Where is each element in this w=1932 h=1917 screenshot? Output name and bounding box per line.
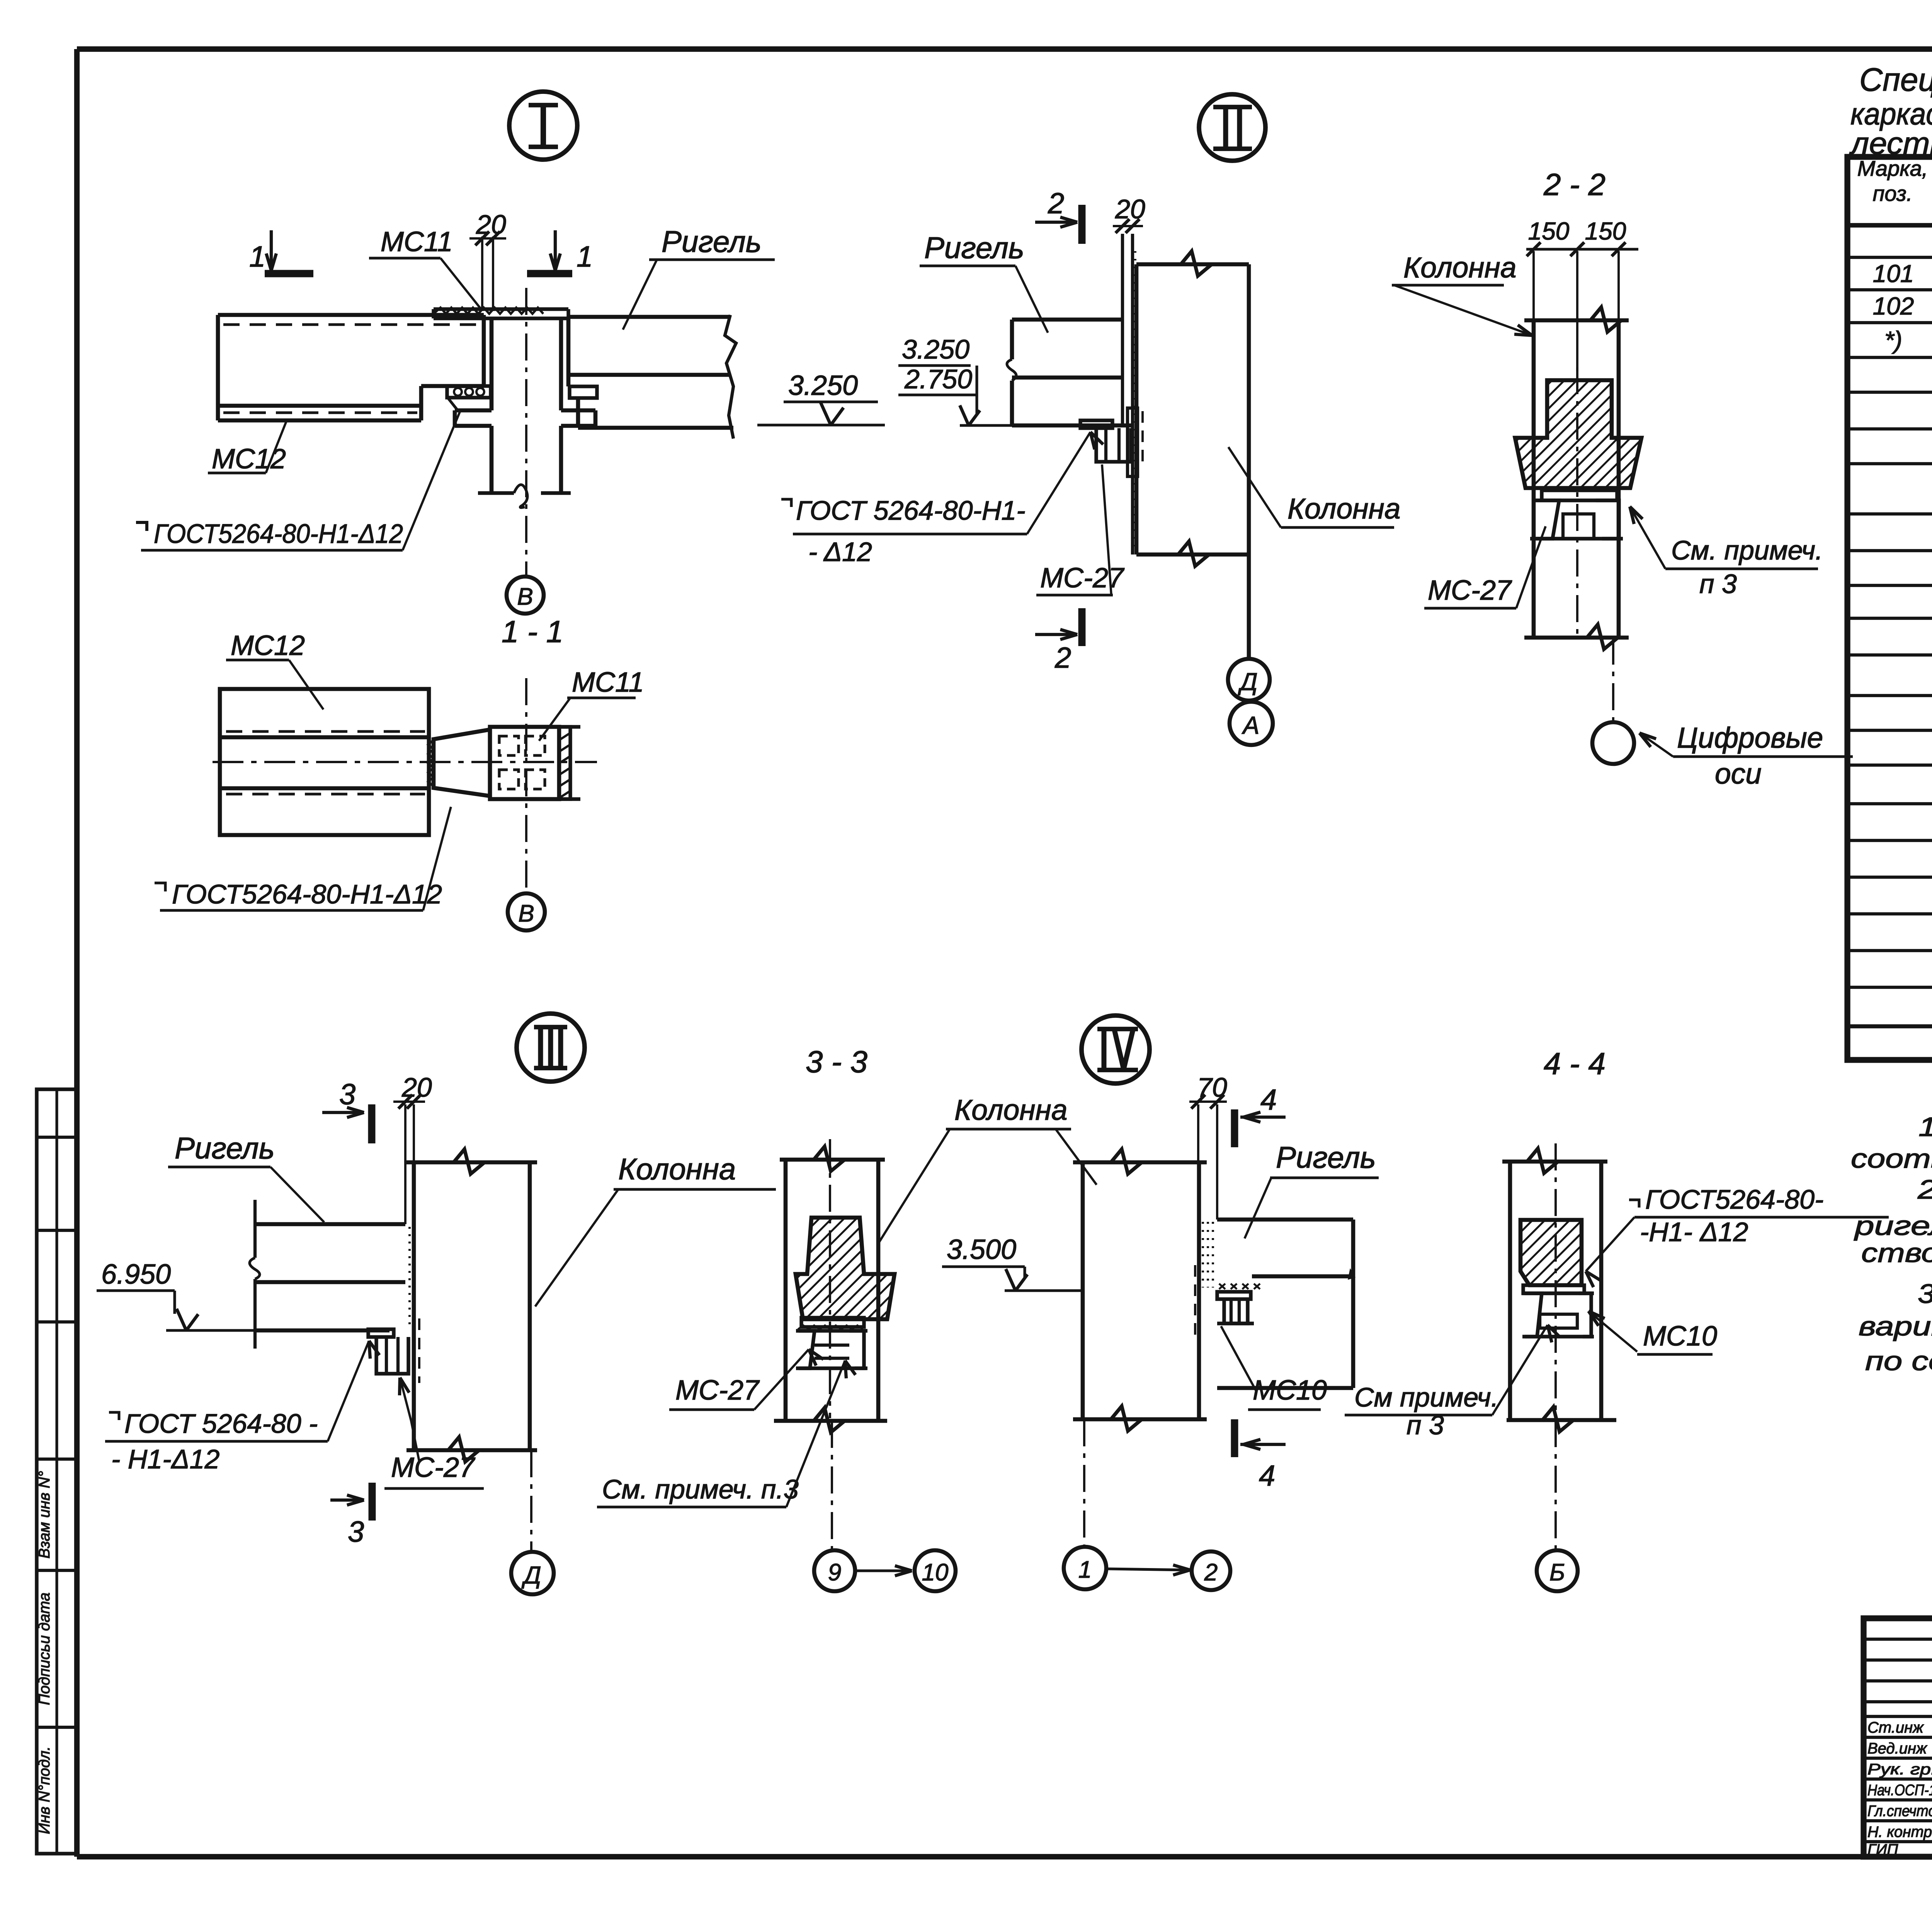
- connector plate box: [490, 727, 559, 799]
- section 2-2 axis circle: [1592, 722, 1634, 764]
- plate MC11 on joint: [434, 307, 568, 311]
- svg-text:МС12: МС12: [231, 630, 305, 661]
- svg-text:2: 2: [1204, 1559, 1218, 1586]
- svg-text:А: А: [1242, 711, 1260, 739]
- svg-text:3.500: 3.500: [947, 1234, 1016, 1265]
- svg-text:ГОСТ 5264-80 -: ГОСТ 5264-80 -: [124, 1408, 318, 1439]
- svg-text:3 - 3: 3 - 3: [806, 1044, 867, 1079]
- section 2-2 connector: [1542, 490, 1617, 500]
- svg-text:Колонна: Колонна: [618, 1152, 736, 1186]
- label GOST node II: [781, 499, 791, 507]
- svg-text:4: 4: [1260, 1084, 1277, 1116]
- svg-text:МС10: МС10: [1643, 1321, 1717, 1352]
- svg-text:1: 1: [1078, 1556, 1092, 1583]
- svg-text:9: 9: [828, 1559, 841, 1586]
- node II bubble: [1199, 94, 1265, 161]
- svg-text:4 - 4: 4 - 4: [1544, 1046, 1605, 1081]
- svg-text:п 3: п 3: [1406, 1410, 1444, 1440]
- svg-text:соответствии с указаниями: соответствии с указаниями ГОСТ 5264-80.: [1851, 1143, 1932, 1174]
- section 2-2 axis dashdot: [1576, 367, 1578, 634]
- weld seam on top plate: [434, 308, 543, 314]
- svg-text:2. Замоноличивание зазора: 2. Замоноличивание зазора между торцом: [1917, 1174, 1932, 1204]
- slab MC12 plan view: [220, 689, 429, 835]
- svg-text:*): *): [1884, 326, 1902, 354]
- node III seat MC-27: [368, 1329, 394, 1337]
- svg-text:Ст.инж: Ст.инж: [1867, 1719, 1924, 1736]
- node II column: [1134, 264, 1139, 555]
- axis line section 1-1: [525, 678, 527, 893]
- svg-text:Взам инв N°: Взам инв N°: [36, 1471, 53, 1559]
- svg-text:Нач.ОСП-1: Нач.ОСП-1: [1867, 1782, 1932, 1799]
- connector wedge: [434, 730, 490, 796]
- node IV weld xxx: [1219, 1284, 1260, 1289]
- node IV axis line: [1083, 1419, 1085, 1546]
- svg-text:- Δ12: - Δ12: [808, 537, 872, 567]
- svg-text:В: В: [518, 900, 534, 927]
- svg-text:Н. контр.: Н. контр.: [1867, 1823, 1932, 1840]
- svg-text:Гл.спечто: Гл.спечто: [1867, 1803, 1932, 1820]
- svg-text:См. примеч. п.3: См. примеч. п.3: [602, 1474, 799, 1504]
- node I bubble: [509, 92, 577, 160]
- node IV column: [1081, 1162, 1085, 1419]
- svg-text:2: 2: [1048, 187, 1064, 220]
- spec table row lines - mark column: [1847, 256, 1932, 259]
- svg-text:ГОСТ5264-80-Н1-Δ12: ГОСТ5264-80-Н1-Δ12: [172, 879, 442, 909]
- label GOST weld section 1-1: [155, 883, 165, 891]
- svg-text:ригеля и колонной выполнят: ригеля и колонной выполнять цементным ра…: [1854, 1211, 1932, 1241]
- node I column axis line: [525, 288, 527, 576]
- svg-text:3.250: 3.250: [788, 370, 858, 401]
- node III column: [412, 1162, 416, 1450]
- section 4-4 axis dashdot: [1554, 1143, 1557, 1417]
- svg-text:Инв N°подл.: Инв N°подл.: [36, 1746, 53, 1834]
- svg-text:МС10: МС10: [1253, 1375, 1327, 1406]
- slab hidden dashes: [226, 730, 425, 733]
- svg-text:Цифровые: Цифровые: [1677, 721, 1823, 754]
- svg-text:Рук. гр.: Рук. гр.: [1867, 1761, 1932, 1778]
- left margin stamp strip: [37, 1089, 77, 1854]
- label GOST section 4-4: [1629, 1200, 1639, 1208]
- svg-text:101: 101: [1873, 260, 1914, 287]
- label GOST weld node I: [136, 522, 147, 531]
- section 3-3 column: [784, 1160, 788, 1421]
- svg-text:2: 2: [1054, 641, 1071, 674]
- connector hidden square pockets: [499, 736, 545, 789]
- svg-text:10: 10: [922, 1559, 949, 1586]
- svg-text:Колонна: Колонна: [954, 1094, 1068, 1126]
- node II beam: [1012, 318, 1122, 322]
- seat plate on left corbel with weld dots: [447, 386, 491, 398]
- label GOST node III: [109, 1412, 119, 1420]
- svg-text:Ригель: Ригель: [1276, 1140, 1376, 1174]
- title block upper-left grid rows: [1864, 1638, 1932, 1641]
- svg-text:Ригель: Ригель: [175, 1131, 275, 1165]
- svg-text:по серии 1.020-1 /83 вып.: по серии 1.020-1 /83 вып. 6-1.: [1865, 1346, 1932, 1376]
- svg-text:- Н1-Δ12: - Н1-Δ12: [111, 1444, 219, 1474]
- svg-text:1: 1: [577, 240, 593, 273]
- section 2-2 axis line to circle: [1612, 638, 1614, 722]
- section 2-2 column: [1532, 320, 1536, 638]
- svg-text:1 - 1: 1 - 1: [502, 614, 563, 649]
- svg-text:20: 20: [1115, 194, 1145, 224]
- svg-text:Колонна: Колонна: [1403, 251, 1517, 284]
- node III section cut 3 bottom: [369, 1483, 376, 1521]
- svg-text:3.250: 3.250: [902, 334, 969, 364]
- node III gap weld dots: [408, 1227, 411, 1328]
- svg-text:102: 102: [1873, 292, 1914, 320]
- svg-text:Подписьи дата: Подписьи дата: [36, 1592, 53, 1705]
- svg-text:См. примеч.: См. примеч.: [1671, 535, 1823, 565]
- node I dim 20 extension lines: [481, 236, 483, 311]
- slab MC12 hidden edges: [223, 323, 479, 326]
- column corbel left wing: [455, 408, 492, 413]
- column corbel right wing: [561, 408, 595, 413]
- svg-text:Ригель: Ригель: [924, 231, 1024, 265]
- spec table outer border: [1847, 157, 1932, 1060]
- svg-text:3. Соединительные изделия М: 3. Соединительные изделия МС-27 и МС10 п…: [1918, 1279, 1932, 1309]
- svg-text:См примеч.: См примеч.: [1354, 1382, 1498, 1412]
- node IV section cut 4 bottom: [1231, 1419, 1238, 1457]
- svg-text:Д: Д: [521, 1561, 541, 1589]
- node III beam: [255, 1222, 405, 1226]
- svg-text:Колонна: Колонна: [1287, 492, 1401, 525]
- svg-text:ГОСТ 5264-80-Н1-: ГОСТ 5264-80-Н1-: [796, 495, 1026, 526]
- node IV section cut 4 top: [1231, 1109, 1238, 1147]
- node IV seat MC10: [1217, 1292, 1251, 1299]
- svg-text:ГОСТ5264-80-Н1-Δ12: ГОСТ5264-80-Н1-Δ12: [154, 519, 403, 549]
- drawing frame border: [77, 46, 1932, 52]
- svg-text:-Н1- Δ12: -Н1- Δ12: [1640, 1217, 1748, 1247]
- node IV beam: [1217, 1218, 1353, 1222]
- node II section cut 2 bottom: [1078, 608, 1086, 646]
- axis bubble V (B): [507, 577, 544, 614]
- section 3-3 connector: [801, 1318, 864, 1327]
- column flange bar section 1-1: [559, 727, 570, 799]
- seat plate on right corbel: [570, 386, 597, 398]
- rigel break line: [725, 315, 736, 439]
- svg-text:МС-27: МС-27: [1040, 563, 1125, 594]
- svg-text:2.750: 2.750: [904, 364, 972, 394]
- title block outer border: [1864, 1618, 1932, 1857]
- svg-text:3: 3: [348, 1516, 364, 1548]
- leader from shared Kolonna label to node IV column: [1056, 1129, 1097, 1185]
- svg-text:поз.: поз.: [1873, 181, 1913, 206]
- node II joint plate: [1121, 234, 1124, 425]
- section 4-4 connector: [1523, 1285, 1584, 1293]
- slab axis line: [213, 761, 597, 763]
- svg-text:створом марки 200.: створом марки 200.: [1861, 1238, 1932, 1268]
- svg-text:МС-27: МС-27: [1428, 575, 1512, 606]
- svg-text:Д: Д: [1238, 668, 1257, 696]
- axis bubble V section 1-1: [508, 893, 545, 930]
- section 4-4 column: [1508, 1162, 1512, 1420]
- section 3-3 axis to bubbles 9 10: [831, 1421, 833, 1550]
- svg-text:В: В: [517, 583, 533, 610]
- node II seat MC-27: [1080, 420, 1112, 428]
- slab MC12 outline: [218, 313, 484, 317]
- column at node I: [490, 318, 494, 410]
- svg-text:150: 150: [1585, 217, 1626, 245]
- title block signature rows: [1864, 1715, 1932, 1718]
- column bottom break line with squiggle: [478, 491, 514, 495]
- svg-text:п 3: п 3: [1699, 569, 1737, 599]
- node II axis bubbles D A: [1247, 555, 1250, 659]
- node III bubble: [517, 1014, 585, 1082]
- svg-text:150: 150: [1528, 217, 1570, 245]
- spec table header row line: [1847, 223, 1932, 228]
- svg-text:Б: Б: [1549, 1559, 1565, 1586]
- node IV bubble: [1082, 1015, 1150, 1084]
- svg-text:оси: оси: [1715, 757, 1762, 790]
- svg-text:Марка,: Марка,: [1857, 156, 1928, 180]
- node IV axis bubbles 1 2: [1064, 1547, 1106, 1589]
- node III axis to bubble D: [530, 1450, 532, 1551]
- node II embed plate on column face: [1128, 408, 1138, 476]
- svg-text:ГИП: ГИП: [1867, 1841, 1898, 1858]
- section 4-4 axis to bubble B: [1554, 1420, 1557, 1550]
- svg-text:6.950: 6.950: [101, 1259, 171, 1290]
- svg-text:Спецификация к схемам распол: Спецификация к схемам расположения элеме…: [1859, 61, 1932, 98]
- svg-text:4: 4: [1259, 1459, 1275, 1492]
- spec table bottom band line: [1847, 1024, 1932, 1029]
- svg-text:варить к колоннам в соотв: варить к колоннам в соответствии с узлом…: [1859, 1311, 1932, 1341]
- svg-text:1. Сварочные работы следует: 1. Сварочные работы следует выполнять в: [1918, 1112, 1932, 1142]
- rigel beam right of node I: [568, 315, 730, 319]
- svg-text:1: 1: [249, 240, 265, 273]
- svg-text:Вед.инж: Вед.инж: [1867, 1740, 1927, 1757]
- svg-text:МС-27: МС-27: [675, 1375, 760, 1406]
- node IV monolith gap stipple: [1202, 1222, 1204, 1288]
- svg-text:МС11: МС11: [572, 667, 644, 698]
- svg-text:Ригель: Ригель: [662, 225, 762, 259]
- svg-text:ГОСТ5264-80-: ГОСТ5264-80-: [1645, 1184, 1823, 1214]
- section 3-3 axis dashdot: [829, 1139, 831, 1418]
- svg-text:20: 20: [476, 209, 506, 240]
- svg-text:2 - 2: 2 - 2: [1543, 167, 1605, 202]
- svg-text:МС11: МС11: [381, 226, 453, 257]
